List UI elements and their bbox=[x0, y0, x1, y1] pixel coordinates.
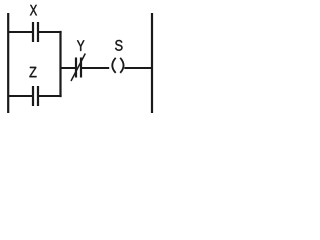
right rail bbox=[151, 13, 153, 113]
wire top rung right segment bbox=[38, 31, 62, 33]
label Z bbox=[30, 67, 37, 77]
wire bottom rung right segment bbox=[38, 95, 62, 97]
wire top rung left segment bbox=[8, 31, 33, 33]
contact X right bar bbox=[37, 22, 39, 42]
wire middle rung to contact Y bbox=[61, 67, 77, 69]
label X bbox=[30, 5, 37, 16]
contact Z right bar bbox=[37, 86, 39, 106]
coil S left parenthesis bbox=[112, 58, 115, 73]
contact X left bar bbox=[32, 22, 34, 42]
wire contact Y to coil S bbox=[81, 67, 109, 69]
contact Z left bar bbox=[32, 86, 34, 106]
contact Y right bar bbox=[80, 58, 82, 78]
wire bottom rung left segment bbox=[8, 95, 33, 97]
contact Y left bar bbox=[75, 58, 77, 78]
label S bbox=[115, 40, 122, 51]
coil S right parenthesis bbox=[120, 58, 123, 73]
contact Y NC slash bbox=[71, 54, 85, 82]
label Y bbox=[77, 40, 84, 51]
wire coil S to right rail bbox=[124, 67, 152, 69]
left rail bbox=[7, 13, 9, 113]
wire vertical join bbox=[59, 31, 61, 97]
